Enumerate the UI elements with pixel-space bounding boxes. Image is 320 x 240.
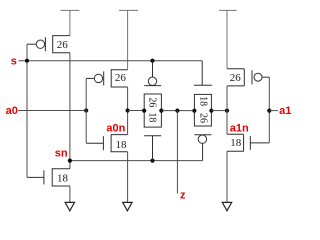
transistor PMOS M3 26 (a0 inverter pull-up) — [86, 70, 127, 87]
svg-text:a0n: a0n — [106, 122, 125, 134]
svg-text:18: 18 — [197, 96, 208, 106]
transistor NMOS M2 18 (s inverter pull-down) — [27, 169, 70, 186]
wire net sn horizontal — [70, 160, 203, 162]
svg-text:18: 18 — [230, 137, 242, 149]
value 26 of TG2 PMOS — [197, 113, 208, 123]
wire M6 drain up to a1n — [226, 111, 228, 135]
svg-text:a0: a0 — [6, 105, 18, 117]
svg-text:26: 26 — [147, 97, 158, 107]
svg-text:26: 26 — [197, 113, 208, 123]
wire net a0 vertical to gates — [85, 78, 87, 143]
node sn junction — [68, 159, 72, 163]
svg-text:a1: a1 — [279, 105, 291, 117]
svg-text:26: 26 — [57, 39, 69, 51]
transmission gate TG2 body (NMOS 18 / PMOS 26) — [194, 94, 211, 126]
wire M4 drain up to a0n — [127, 111, 129, 135]
node TG1 left junction — [142, 109, 146, 113]
svg-text:s: s — [11, 55, 17, 67]
node TG2 left junction — [192, 109, 196, 113]
node a1 junction — [267, 109, 271, 113]
wire M2 source to ground — [69, 186, 71, 202]
node TG2 right junction — [209, 109, 213, 113]
wire M2 drain up to sn — [69, 161, 71, 169]
wire net s horizontal — [19, 60, 203, 62]
ground symbol 2 — [123, 202, 132, 210]
svg-text:z: z — [180, 190, 186, 202]
node sn junction at TG1 gate — [150, 159, 154, 163]
TG1 NMOS gate (from sn) — [144, 136, 161, 161]
node a0n junction — [126, 108, 130, 112]
svg-text:18: 18 — [147, 112, 158, 122]
value 18 of TG2 NMOS — [197, 96, 208, 106]
power VDD symbol 1 — [61, 10, 80, 35]
node s junction at TG1 gate — [150, 59, 154, 63]
transistor NMOS M4 18 (a0 inverter pull-down) — [86, 135, 127, 152]
ground symbol 1 — [65, 202, 74, 210]
transistor PMOS M5 26 (a1 inverter pull-up, mirrored) — [227, 69, 269, 86]
wire M5 drain down to a1n — [226, 86, 228, 111]
svg-text:18: 18 — [116, 139, 128, 151]
node a1n junction — [225, 109, 229, 113]
transistor PMOS M1 26 (s inverter pull-up) — [27, 36, 70, 53]
wire net z horizontal — [161, 110, 194, 112]
TG1 PMOS gate (bubble, from s) — [144, 61, 161, 86]
wire M4 source to ground crossing sn — [127, 152, 129, 203]
wire M3 drain down to a0n — [127, 87, 129, 111]
power VDD symbol 2 — [119, 10, 138, 69]
transmission gate TG1 body (PMOS 26 / NMOS 18) — [144, 94, 161, 127]
value 26 of TG1 PMOS — [147, 97, 158, 107]
node s junction — [25, 59, 29, 63]
wire net s vertical to gates — [26, 44, 28, 177]
ground symbol 3 — [222, 202, 231, 210]
wire net a1 vertical to gates — [268, 77, 270, 143]
node TG1 right junction — [159, 109, 163, 113]
svg-text:sn: sn — [55, 147, 68, 159]
transistor NMOS M6 18 (a1 inverter pull-down, mirrored) — [227, 134, 269, 151]
TG2 NMOS gate (from s) — [194, 61, 212, 86]
wire M1 drain down to sn — [69, 53, 71, 161]
value 18 of TG1 NMOS — [147, 112, 158, 122]
wire net a1 horizontal — [269, 110, 278, 112]
wire net z vertical — [176, 111, 178, 194]
wire net a0 horizontal — [18, 110, 86, 112]
power VDD symbol 3 — [219, 10, 237, 68]
svg-text:a1n: a1n — [230, 123, 249, 135]
wire net a0n to TG1 — [128, 110, 145, 112]
wire net a1n horizontal — [211, 110, 227, 112]
wire M6 source to ground — [226, 151, 228, 202]
node a0 junction — [84, 108, 88, 112]
svg-text:26: 26 — [230, 72, 242, 84]
TG2 PMOS gate (bubble, from sn) — [194, 135, 211, 161]
svg-text:18: 18 — [57, 172, 69, 184]
svg-text:26: 26 — [115, 72, 127, 84]
node z junction — [175, 109, 179, 113]
